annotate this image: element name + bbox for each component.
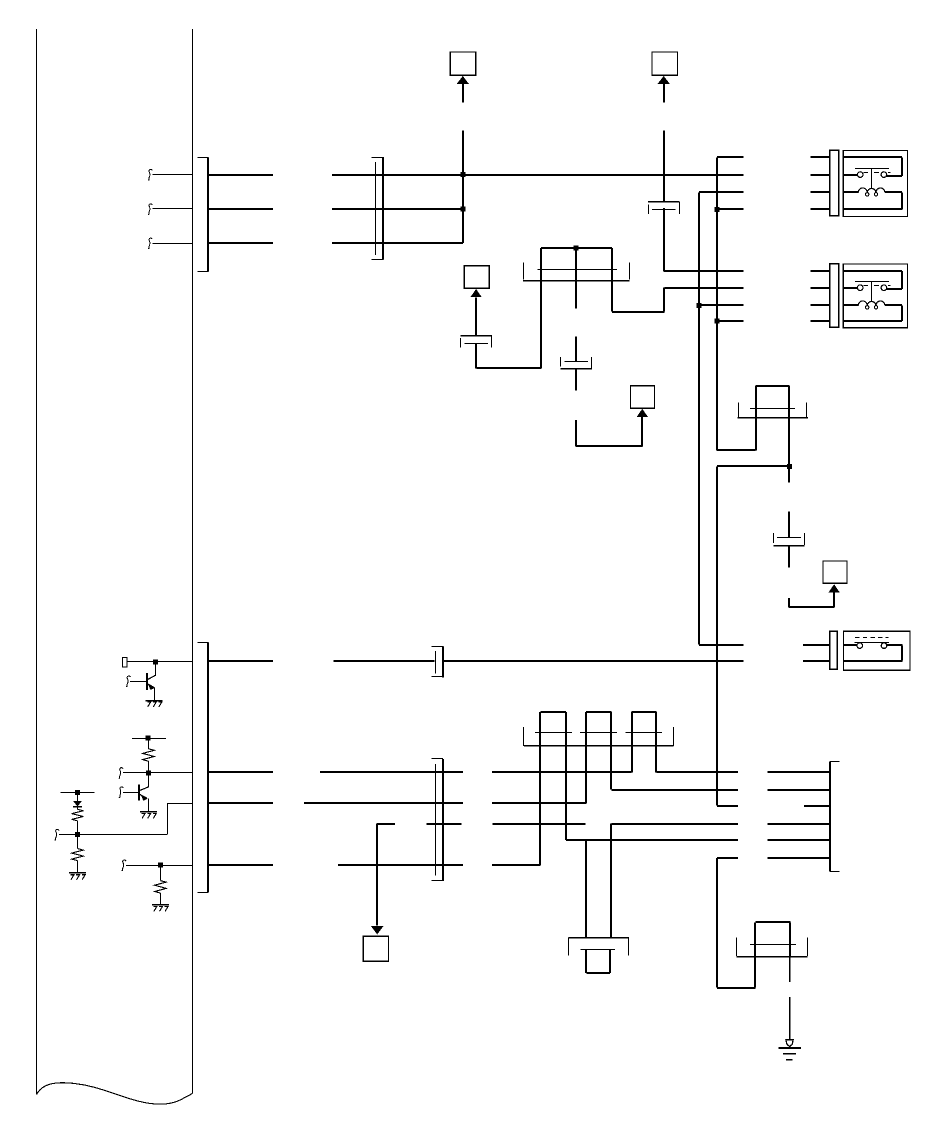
ground R4 [152, 904, 169, 906]
wire J9 right pin down [789, 956, 791, 982]
wire loop J7 pins 1-2 [541, 711, 567, 713]
wire C3 top [788, 511, 790, 537]
connector J6 pins wire left [333, 660, 434, 662]
earth ground [786, 1040, 793, 1047]
transformer T2 [810, 270, 829, 272]
wire bus2 [698, 192, 700, 644]
power port P3 arrow [470, 289, 481, 297]
wire J3 right pin down [611, 281, 613, 312]
connector J10 pin5 [768, 839, 831, 841]
power port P1 arrow [457, 76, 469, 84]
wire VCC net vertical [462, 131, 464, 244]
resistor R2 [72, 809, 84, 821]
ground Q2 emitter [140, 811, 157, 813]
sheet entry squiggle row 2 [148, 204, 152, 215]
connector J2 [382, 157, 384, 260]
power port P4 arrow [637, 409, 648, 417]
connector J7 pin2 down [565, 746, 567, 840]
junction dot bus2 w7 [697, 303, 702, 308]
wire R4 top lead [160, 865, 162, 881]
connector J5 bar [855, 642, 890, 644]
junction dot Q1 collector [153, 659, 158, 664]
wire L3 row [611, 789, 738, 791]
junction dot R1 top [146, 736, 151, 741]
connector J10 pin2 [768, 789, 831, 791]
connector J7 pin4 lower [610, 824, 612, 937]
connector J6 [442, 647, 444, 678]
connector J10 bracket [829, 762, 831, 872]
power port P2 arrow [658, 76, 670, 84]
resistor R3 [72, 849, 84, 861]
connector J5 pin1 [803, 644, 829, 646]
junction dot bus1 w8 [714, 318, 719, 323]
wire thin lead row 1 to border [152, 174, 192, 176]
wire w1 stub [717, 156, 744, 158]
wire loop J7 pins 3-4 [586, 711, 611, 713]
wire J9 left pin down [754, 956, 756, 988]
wire L6 seg2 [426, 823, 461, 825]
capacitor C1 [648, 201, 679, 203]
wire rail R1 [132, 738, 166, 740]
wire wavy tear line [37, 1083, 193, 1104]
junction dot R4 top [158, 863, 163, 868]
wire L2 seg1 [320, 771, 463, 773]
connector J5 rails [844, 644, 857, 646]
wire w5 row [664, 270, 744, 272]
power port P4 box [631, 386, 655, 409]
wire loop above J4 [756, 385, 790, 387]
wire C2 net to P4 [575, 420, 577, 446]
power port P6 arrow [371, 926, 384, 935]
wire Q2 base lead [123, 792, 139, 794]
connector J10 pin4 [768, 823, 831, 825]
wire thin lead row 2 to border [152, 208, 192, 210]
wire P2 net vertical [663, 131, 665, 202]
wire rail D1 [61, 792, 95, 794]
wire L2 right from pin6 [656, 771, 738, 773]
connector J5 dashed line [855, 637, 859, 639]
connector J1 pin 3 [208, 242, 273, 244]
power port P6 box [363, 936, 388, 961]
wire L8 seg2 [492, 864, 540, 866]
wire bus1 to J4 [717, 449, 756, 451]
wire L9 stub [717, 857, 738, 859]
junction dot Q2 collector [146, 770, 151, 775]
wire R1 bottom lead [148, 761, 150, 773]
wire loop below J8 [585, 950, 587, 973]
wire node to R3 [77, 835, 79, 849]
wire segment row2 mid [332, 208, 463, 210]
connector J10 pin6 [768, 857, 831, 859]
wire R3 to ground [77, 861, 79, 873]
wire left template border line [36, 29, 38, 1095]
sheet entry squiggle L8 [122, 860, 126, 871]
wire R1 top lead [148, 738, 150, 749]
power port P5 box [823, 561, 847, 583]
transistor Q2 collector lead [148, 773, 150, 787]
capacitor C4 [461, 335, 492, 337]
wire w8 stub [717, 320, 744, 322]
wire segment row3 mid [332, 242, 463, 244]
junction dot loop J3 [574, 245, 579, 250]
wire thin lead row 3 to border [152, 243, 192, 245]
wire L4 seg2 [492, 802, 586, 804]
connector J11 pin3 [208, 802, 273, 804]
wire L2 thin lead [123, 772, 192, 774]
wire L8 thin lead [126, 865, 192, 867]
wire J4 left pin down [755, 418, 757, 451]
wire R2 bottom lead [77, 821, 79, 835]
wire bus1 bottom segment [716, 858, 718, 988]
wire loop above J9 [755, 921, 790, 923]
wire L2 seg2 [492, 771, 631, 773]
wire L5 stub [717, 805, 738, 807]
transistor Q2 [138, 784, 140, 800]
connector J1 pin 2 [208, 208, 273, 210]
diode D1 [73, 801, 82, 807]
connector J7 pin3 down [585, 746, 587, 804]
connector J10 pin1 [768, 771, 831, 773]
sheet entry squiggle row 1 [148, 170, 152, 181]
wire L7 row [566, 839, 738, 841]
wire diode node riser [167, 803, 169, 834]
wire C4 to J3 [476, 367, 541, 369]
wire bus1 bottom corner [717, 987, 755, 989]
wire J3 left pin down [540, 281, 542, 369]
wire bus2 bottom corner row [699, 644, 744, 646]
wire D1 to R2 [77, 807, 79, 810]
wire C2 top [575, 337, 577, 361]
transformer T1 [810, 156, 829, 158]
wire L8 seg1 [338, 864, 463, 866]
wire C3 net to P5 [788, 598, 790, 608]
wire GND arrow drop [376, 824, 378, 926]
junction dot D1 top [75, 790, 80, 795]
wire L6 corner seg [377, 823, 395, 825]
wire Q1 base lead [130, 681, 147, 683]
wire C2 bottom [575, 369, 577, 391]
wire L1 right [443, 660, 743, 662]
power port P3 box [464, 266, 489, 289]
junction dot bus1 w4 [714, 207, 719, 212]
wire J4 right pin down [788, 418, 790, 483]
connector J7 body [535, 732, 572, 734]
wire loop J7 pins 5-6 [632, 711, 657, 713]
connector J7 pin3 lower [585, 840, 587, 937]
junction dot row1 [460, 172, 465, 177]
connector J9 body [750, 944, 796, 946]
sheet entry squiggle Q2 base [119, 787, 123, 798]
connector J3 body [538, 269, 617, 271]
connector J11 pin2 [208, 771, 273, 773]
connector J11 bracket [207, 643, 209, 893]
wire diode node to border [167, 803, 192, 805]
wire C1 bottom [663, 208, 665, 271]
wire Q1 emitter [154, 688, 156, 701]
connector J5 box [844, 631, 910, 670]
wire D1 top lead [77, 792, 79, 801]
wire w6 row [664, 287, 743, 289]
wire w4 stub [717, 208, 744, 210]
wire bus1 upper [716, 157, 718, 450]
connector J1 pin 1 [208, 174, 273, 176]
wire L6 seg3 [493, 823, 586, 825]
sheet entry squiggle Q1 base [126, 676, 130, 687]
connector J11 pin1 [208, 660, 273, 662]
connector J7 pin4 down [610, 746, 612, 790]
capacitor C2 [564, 361, 588, 363]
wire C4 bottom [475, 343, 477, 368]
wire L1 left box [122, 657, 126, 667]
wire R4 to ground [160, 893, 162, 905]
junction dot diode node [75, 832, 80, 837]
wire L6 right [611, 823, 738, 825]
transistor Q1 collector lead [155, 662, 157, 675]
connector J11 pin4 [208, 864, 273, 866]
connector J5 pin2 [803, 660, 829, 662]
connector J6b [442, 759, 444, 881]
wire bus1 to C3 node [717, 465, 789, 467]
wire w7 stub [699, 304, 743, 306]
wire bus1 lower [716, 467, 718, 806]
ground Q1 emitter [146, 700, 163, 702]
power port P2 box [652, 52, 677, 75]
capacitor C3 [777, 537, 801, 539]
wire L1 thin lead [127, 661, 193, 663]
ground R3 [69, 872, 86, 874]
resistor R1 [143, 749, 155, 761]
connector J8 body [568, 937, 629, 939]
sheet entry squiggle L2 [119, 768, 123, 779]
junction dot row2 [460, 206, 465, 211]
connector J5 hooks [857, 643, 863, 649]
sheet entry squiggle row 3 [148, 238, 152, 249]
wire Q2 emitter [148, 798, 150, 811]
power port P5 arrow [828, 584, 839, 592]
wire P3 to C4 [475, 297, 477, 335]
junction dot C3 node [787, 464, 792, 469]
wire to earth ground [789, 997, 791, 1040]
connector J7 pin1 down [539, 746, 541, 866]
wire C3 bottom [788, 545, 790, 567]
wire jog right pin [612, 311, 664, 313]
connector J7 pin5 down [631, 746, 633, 773]
transistor Q1 [146, 673, 148, 690]
sheet entry squiggle diode node [55, 829, 59, 840]
connector J5 shell [830, 631, 838, 669]
connector J1 bracket [207, 157, 209, 271]
wire right template border line [192, 29, 194, 1093]
wire loop above J3 [541, 247, 612, 249]
power port P1 box [450, 52, 475, 75]
connector J4 body [750, 408, 795, 410]
resistor R4 [155, 881, 167, 893]
wire segment row1 mid [332, 174, 463, 176]
wire J3 center pin down [575, 281, 577, 309]
wire L4 seg1 [304, 802, 463, 804]
wire diode node row [59, 834, 167, 836]
connector J10 pin3 [804, 805, 830, 807]
wire w3 stub [699, 191, 743, 193]
wire row1 to transformers [463, 174, 744, 176]
connector J7 pin6 down [655, 746, 657, 773]
